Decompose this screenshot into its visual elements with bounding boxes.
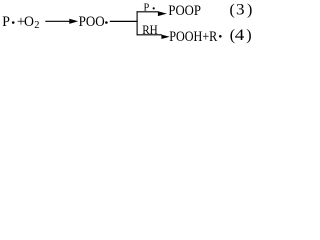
svg-text:(: (: [230, 2, 235, 19]
svg-text:POOH+R: POOH+R: [169, 28, 217, 44]
svg-text:): ): [247, 2, 252, 19]
svg-text:POOP: POOP: [168, 2, 201, 18]
svg-text:): ): [246, 27, 251, 44]
svg-text:4: 4: [235, 26, 245, 44]
svg-text:2: 2: [34, 20, 39, 31]
svg-text:POO: POO: [79, 13, 105, 29]
svg-text:3: 3: [236, 0, 245, 18]
svg-text:RH: RH: [142, 22, 158, 37]
svg-text:O: O: [24, 13, 34, 29]
svg-text:P: P: [2, 13, 10, 29]
svg-text:P: P: [143, 2, 149, 13]
